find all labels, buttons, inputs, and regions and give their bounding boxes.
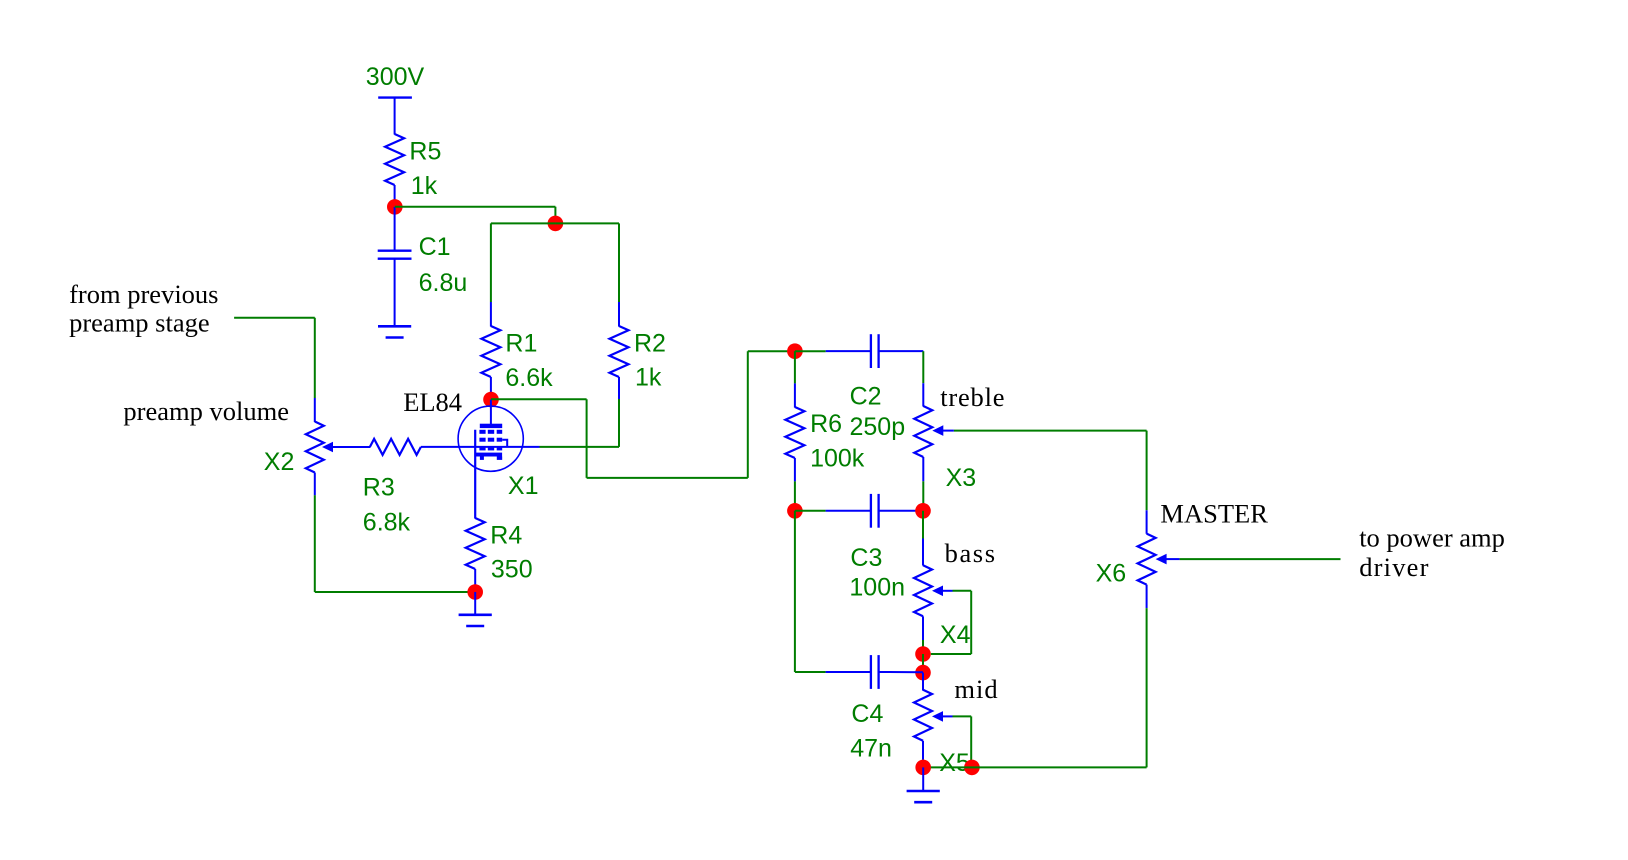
node A junction (R5/C1/anode feed) — [387, 199, 403, 215]
wire R3 to grid pin — [421, 446, 540, 448]
wire R6 to node G — [794, 458, 796, 511]
svg-text:R4: R4 — [490, 522, 522, 550]
svg-text:bass: bass — [945, 538, 997, 568]
potentiometer X3 — [914, 406, 932, 457]
svg-text:X5: X5 — [939, 749, 970, 777]
wire R4 to ground node — [474, 569, 476, 592]
svg-text:C1: C1 — [419, 233, 451, 261]
label bass — [945, 538, 997, 568]
label from previous preamp stage — [69, 279, 218, 338]
label X3 — [946, 464, 977, 492]
svg-text:R6: R6 — [810, 410, 842, 438]
svg-text:6.8u: 6.8u — [419, 269, 468, 297]
wiper of X4 loop — [931, 586, 971, 655]
wiper of X2 — [322, 442, 370, 453]
resistor R4 — [466, 518, 485, 569]
label C3 value — [849, 544, 905, 601]
svg-text:100n: 100n — [849, 573, 905, 601]
wire 300V rail to R5 — [394, 98, 396, 135]
svg-text:X4: X4 — [940, 621, 971, 649]
svg-text:preamp stage: preamp stage — [69, 308, 210, 338]
svg-text:R5: R5 — [409, 138, 441, 166]
wire input to X2 — [234, 318, 315, 422]
wire C4 to node I — [879, 671, 923, 673]
label mid — [954, 674, 998, 704]
node B junction (R1/R2 feed) — [548, 216, 564, 232]
resistor R3 — [370, 439, 421, 455]
wire anode to tone stack input — [491, 351, 795, 478]
wire node I to X5 — [922, 673, 924, 691]
power supply node 300V label — [366, 63, 425, 91]
node J junction (mid bottom ground) — [915, 760, 931, 776]
wire node A to C1 — [394, 207, 396, 251]
potentiometer X5 — [914, 690, 932, 741]
wire node G to C4 — [795, 511, 871, 672]
wire X4 bottom to node H — [922, 616, 924, 654]
resistor R1 — [481, 326, 500, 377]
wire X6 bottom to bottom rail — [1146, 585, 1148, 768]
svg-text:R2: R2 — [634, 329, 666, 357]
svg-text:350: 350 — [491, 555, 533, 583]
wire node F to X4 — [922, 511, 924, 566]
wire R1 to anode node — [490, 377, 492, 400]
svg-text:R1: R1 — [505, 329, 537, 357]
label C2 value — [850, 383, 906, 442]
capacitor C2 — [871, 334, 879, 368]
wiper of X6 output — [1156, 554, 1341, 565]
wire X2 bottom to cathode node — [315, 473, 475, 593]
label X2 — [264, 448, 295, 476]
svg-text:EL84: EL84 — [403, 387, 462, 417]
label R2 value — [634, 329, 666, 391]
wire bottom rail to master — [931, 766, 1147, 768]
label R6 value — [810, 410, 865, 472]
wire node G to C3 — [795, 510, 871, 512]
potentiometer X2 — [306, 422, 324, 473]
node F junction (C3 right / treble bottom / bass top) — [915, 503, 931, 519]
wire C2 to X3 — [879, 351, 924, 406]
wiper of X3 to master — [932, 425, 1146, 510]
node G junction (C3 left) — [787, 503, 803, 519]
wire R5 to node A — [394, 185, 396, 207]
label X6 — [1096, 559, 1127, 587]
svg-text:X1: X1 — [508, 472, 539, 500]
tube X1 EL84 pentode — [458, 400, 523, 519]
svg-text:from previous: from previous — [69, 279, 218, 309]
wire node E to R6 — [794, 351, 796, 407]
wire node A to node B — [395, 207, 556, 224]
wire X5 bottom to node J — [922, 741, 924, 768]
node D junction (cathode ground) — [467, 584, 483, 600]
ground under C1 — [378, 326, 411, 337]
power supply rail bar 300V — [378, 96, 412, 98]
ground under R4 — [459, 592, 492, 626]
svg-text:C4: C4 — [851, 700, 883, 728]
svg-text:C2: C2 — [850, 383, 882, 411]
capacitor C1 — [378, 251, 412, 259]
label X1 — [508, 472, 539, 500]
label treble — [940, 382, 1005, 412]
node I junction (C4 right) — [915, 665, 931, 681]
svg-text:MASTER: MASTER — [1160, 499, 1268, 529]
node H junction (bass bottom / X4 wiper) — [915, 646, 931, 662]
capacitor C3 — [871, 494, 879, 528]
node C junction (anode/R1) — [483, 392, 499, 408]
resistor R6 — [785, 407, 804, 458]
svg-text:X2: X2 — [264, 448, 295, 476]
svg-text:6.6k: 6.6k — [505, 364, 553, 392]
label C4 value — [850, 700, 892, 763]
label R5 value — [409, 138, 441, 201]
wire node H to node I — [922, 654, 924, 673]
wire R2 to grid — [540, 377, 620, 447]
svg-text:47n: 47n — [850, 735, 892, 763]
label EL84 — [403, 387, 462, 417]
wire C1 to ground — [394, 259, 396, 326]
potentiometer X6 — [1138, 534, 1156, 585]
svg-text:1k: 1k — [411, 172, 438, 200]
svg-text:driver: driver — [1359, 552, 1429, 582]
wire node B to R2 — [555, 223, 619, 326]
node E junction (tone stack input) — [787, 343, 803, 359]
svg-text:to power amp: to power amp — [1359, 522, 1505, 552]
capacitor C4 — [871, 655, 879, 689]
wire treble wiper to X6 top — [1146, 510, 1148, 534]
label R3 value — [363, 474, 411, 537]
svg-text:X3: X3 — [946, 464, 977, 492]
svg-text:250p: 250p — [850, 413, 906, 441]
wire node E to C2 — [795, 350, 871, 352]
wire node B to R1 — [491, 223, 556, 326]
svg-text:6.8k: 6.8k — [363, 508, 411, 536]
label R4 value — [490, 522, 532, 584]
svg-text:R3: R3 — [363, 474, 395, 502]
svg-text:C3: C3 — [850, 544, 882, 572]
label MASTER — [1160, 499, 1268, 529]
resistor R2 — [610, 326, 629, 377]
wiper of X5 loop — [932, 711, 971, 767]
label C1 value — [419, 233, 468, 297]
wire X3 bottom to node F — [922, 457, 924, 511]
svg-text:preamp volume: preamp volume — [123, 396, 289, 426]
svg-text:mid: mid — [954, 674, 998, 704]
potentiometer X4 — [914, 565, 932, 616]
svg-text:300V: 300V — [366, 63, 425, 91]
svg-text:treble: treble — [940, 382, 1005, 412]
label preamp volume — [123, 396, 289, 426]
node K junction (X5 wiper / bottom rail) — [964, 760, 980, 776]
label to power amp driver — [1359, 522, 1505, 581]
label R1 value — [505, 329, 553, 392]
svg-text:100k: 100k — [810, 444, 865, 472]
svg-text:1k: 1k — [635, 364, 662, 392]
label X4 — [940, 621, 971, 649]
resistor R5 — [385, 134, 404, 185]
ground under X5 — [907, 767, 940, 802]
wire C3 to node F — [879, 510, 923, 512]
label X5 — [939, 749, 970, 777]
svg-text:X6: X6 — [1096, 559, 1127, 587]
